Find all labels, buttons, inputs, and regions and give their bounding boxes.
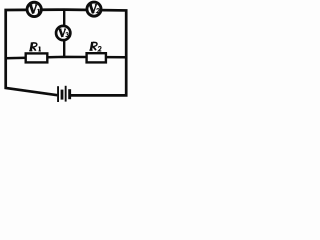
resistor R2: [87, 42, 106, 62]
wire: outer loop (slanted bottom-left segment to battery, left, top, right sides, bottom-right stub): [6, 10, 127, 96]
resistor R1: [26, 43, 48, 63]
voltmeter V2: [87, 2, 101, 16]
battery plate: long thin 2: [65, 86, 67, 102]
battery plate: short thick 1: [61, 90, 64, 100]
battery plate: long thin 1: [57, 86, 59, 102]
battery plate: short thick 2: [68, 89, 71, 99]
voltmeter V1: [27, 2, 41, 16]
wire: vertical branch from top wire through V3 to middle wire: [63, 10, 65, 57]
wire: middle horizontal wire through R1 and R2: [6, 57, 127, 58]
battery (two cells): [57, 86, 71, 102]
voltmeter V3: [56, 26, 70, 40]
